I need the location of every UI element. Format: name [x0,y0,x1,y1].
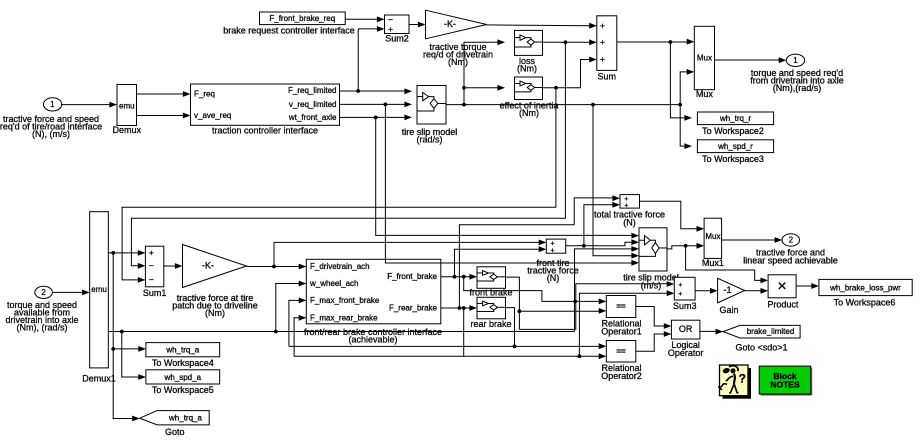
svg-text:v_req_limited: v_req_limited [289,100,337,109]
wire F_max_front_brake input [289,300,300,346]
junction v_req_limited [384,103,388,107]
wire RelOp2 to OR [636,334,665,351]
inport 1 : tractive force and speed req'd [43,98,61,111]
wire rad/s down to tire slip model in4 [593,105,633,256]
svg-text:wh_trq_r: wh_trq_r [719,114,751,123]
wire F_front_brake_req to Sum2 [345,18,378,20]
svg-text:To Workspace6: To Workspace6 [834,298,896,308]
sum: total tractive force (N) [620,195,640,209]
Relational Operator1 [606,296,636,318]
Goto brake_limited [723,325,800,338]
svg-text:Gain: Gain [719,305,738,315]
svg-text:Demux: Demux [113,125,142,135]
junction Sum output [669,40,673,44]
subsystem: front/rear brake controller interface (achievable) [306,259,441,324]
wire Product to wh_brake_loss_pwr [796,285,812,287]
junction speed to wh_spd_a [120,330,124,334]
sum Sum2 [385,15,410,34]
junction rad/s line to Mux/wh_spd_r [678,103,682,107]
wire Mux to outport 1 [715,59,780,61]
svg-text:(rad/s): (rad/s) [416,135,442,145]
svg-text:Sum: Sum [598,71,617,81]
wire F_rear_brake up to total tractive force in1 [459,198,613,308]
svg-text:Mux: Mux [705,232,720,241]
svg-text:(Nm),(rad/s): (Nm),(rad/s) [773,83,822,93]
wire gain2 out to F_drivetrain_ach [247,266,300,268]
svg-text:Operator: Operator [668,348,704,358]
svg-text:traction controller interface: traction controller interface [212,125,318,135]
junction rad/s line to loss [462,103,466,107]
svg-text:2: 2 [41,288,46,297]
junction speed to w_wheel_ach [274,330,278,334]
wire Mux1 to outport 2 [722,239,776,241]
wire F_req_limited to tire slip model [340,90,406,92]
wire F_rear_brake down to line L2 [463,308,465,356]
constant block F_front_brake_req [260,12,346,25]
svg-text:(Nm): (Nm) [517,64,537,74]
gain -K- : tractive torque req/d of drivetrain [426,10,487,39]
svg-text:(Nm), (rad/s): (Nm), (rad/s) [17,323,68,333]
wire Demux out2 to v_ave_req [137,115,185,117]
svg-text:==: == [616,302,626,311]
svg-text:(Nm): (Nm) [519,108,539,118]
svg-text:To Workspace3: To Workspace3 [702,154,764,164]
junction driveline force [272,265,276,269]
wire F_rear_brake output to rear brake block [441,307,471,309]
subsystem: tire slip model (m/s) [639,228,667,271]
wire RelOp1 to OR [636,307,659,327]
subsystem: tire slip model (rad/s) [417,86,446,125]
svg-text:+: + [624,202,628,209]
svg-text:(N): (N) [623,217,636,227]
svg-text:(m/s): (m/s) [641,280,662,290]
svg-text:front brake: front brake [469,288,512,298]
wire inport1 to Demux [61,104,111,106]
wire front brake output down [506,277,520,329]
wire Demux1 out2 (speed) long line [108,331,574,333]
svg-text:To Workspace2: To Workspace2 [702,126,764,136]
svg-text:1: 1 [50,100,55,109]
wire Sum3 to gain -1 [695,290,711,292]
wire F_front_brake output to front brake block [441,276,471,278]
svg-text:emu: emu [91,285,107,294]
wire F_front_brake up to front tire sum in2 [455,249,540,277]
wire front tire sum output [566,242,633,246]
wire L2 up to Sum3 in2 [579,293,668,356]
svg-text:Sum1: Sum1 [143,288,167,298]
junction on RelOp1 in1 line [573,300,577,304]
svg-text:wh_trq_a: wh_trq_a [165,346,199,355]
svg-text:−: − [149,275,154,285]
svg-text:wh_trq_a: wh_trq_a [168,413,202,422]
junction front brake out to RelOp1 in2 [518,309,522,313]
svg-text:Operator2: Operator2 [601,371,642,381]
svg-text:To Workspace5: To Workspace5 [152,385,214,395]
To Workspace5 block wh_spd_a [146,370,220,384]
wire v_req_limited down to tire slip model in5 [385,104,632,263]
svg-text:wt_front_axle: wt_front_axle [288,113,337,122]
junction on F_req_limited wire [356,89,360,93]
svg-text:+: + [678,291,682,298]
wire inport2 to Demux1 [52,291,83,293]
svg-text:Goto <sdo>1: Goto <sdo>1 [735,342,787,352]
wire from F_req_limited up to Sum2 plus input [357,29,359,91]
svg-text:1: 1 [793,56,798,65]
junction wt_front_axle [374,116,378,120]
junction L2 up to Sum3 in2 [578,354,582,358]
svg-text:w_wheel_ach: w_wheel_ach [309,279,358,288]
svg-text:brake_limited: brake_limited [747,327,795,336]
wire F_front_brake down to Relational Operator1 in1 [464,277,600,302]
wire F_max_rear_brake input [294,318,300,356]
svg-text:(N): (N) [547,273,560,283]
svg-text:?: ? [739,371,746,385]
wire loss output to Sum in2 [543,41,591,43]
junction to wh_trq_a [111,347,115,351]
svg-text:F_max_rear_brake: F_max_rear_brake [310,313,378,322]
wire rad/s line up to Mux in2 [680,72,688,105]
svg-text:Goto: Goto [165,427,185,437]
Demux [117,85,137,126]
wire wt_front_axle to tire slip model [340,116,406,118]
Goto block wh_trq_a [140,411,209,425]
svg-text:×: × [777,278,786,295]
svg-text:Mux: Mux [696,89,714,99]
svg-text:+: + [600,37,605,47]
wire Demux out1 to F_req [137,93,185,95]
subsystem: traction controller interface [191,84,340,125]
wire rear brake output down to L1 [506,308,515,347]
To Workspace4 block wh_trq_a [146,343,220,357]
wire down to wh_trq_r [670,42,685,118]
sum Sum3 [674,277,695,300]
svg-text:+: + [551,247,555,254]
svg-text:+: + [600,20,605,30]
To Workspace3 block wh_spd_r [697,140,773,153]
gain -1 [718,278,745,303]
wire rad/s line down to wh_spd_r [680,105,685,147]
svg-text:wh_brake_loss_pwr: wh_brake_loss_pwr [829,283,901,292]
svg-text:F_req: F_req [194,90,215,99]
subsystem: loss (Nm) [515,30,543,55]
svg-text:(N), (m/s): (N), (m/s) [32,129,70,139]
svg-text:Mux1: Mux1 [702,258,724,268]
svg-text:-K-: -K- [202,261,214,271]
svg-text:+: + [600,54,605,64]
svg-text:-1: -1 [723,285,731,295]
wire tire slip m/s output to Mux1 in2 [667,246,698,249]
svg-text:NOTES: NOTES [770,380,800,390]
wire Sum output to Mux in1 [617,41,688,43]
svg-text:F_max_front_brake: F_max_front_brake [310,296,380,305]
junction torque avail [111,251,115,255]
svg-text:F_req_limited: F_req_limited [288,86,336,95]
svg-text:(achievable): (achievable) [348,335,397,345]
line L1 F_max_front_brake to Relational Operator2 in1 [289,345,600,347]
sum Sum1 [145,246,163,287]
To Workspace6 block wh_brake_loss_pwr [819,279,912,295]
wire front brake out to Sum3 in1 [519,284,668,330]
feedback line A (inertia) to Sum1 in3 [122,88,556,280]
outport 1 : torque and speed req'd [786,54,804,66]
subsystem: effect of inertia (Nm) [515,77,543,100]
svg-text:+: + [678,282,682,289]
svg-text:Sum2: Sum2 [385,34,409,44]
wire branch to effect of inertia input [464,87,499,89]
feedback line B (loss) to Sum1 in2 [131,42,565,265]
Mux [694,26,714,89]
wire speed up to w_wheel_ach [276,284,300,332]
wire Sum1 to gain [164,265,176,267]
svg-text:Product: Product [767,299,799,309]
yellow help figure block [723,368,752,399]
svg-text:brake request controller inter: brake request controller interface [223,26,355,36]
junction F_rear_brake down [462,306,466,310]
svg-text:OR: OR [679,324,693,334]
sum: front tire tractive force (N) [546,239,565,253]
speed line up to tire slip model in3 [575,249,633,332]
To Workspace2 block wh_trq_r [697,112,773,125]
svg-text:-K-: -K- [444,19,456,29]
wire Sum2 to gain [409,24,419,26]
svg-text:Sum3: Sum3 [673,301,697,311]
svg-text:wh_spd_r: wh_spd_r [717,142,753,151]
svg-text:F_drivetrain_ach: F_drivetrain_ach [310,262,370,271]
green Block NOTES [761,368,813,396]
svg-text:F_rear_brake: F_rear_brake [389,304,438,313]
Relational Operator2 [606,341,636,363]
junction rad/s line down to tire slip model m/s [591,103,595,107]
wire tire slip model output (rad/s line) [446,104,680,106]
svg-text:−: − [149,261,154,271]
svg-text:rear brake: rear brake [470,319,511,329]
wire torque branch down to wh_trq_a and Goto [113,253,133,419]
svg-text:wh_spd_a: wh_spd_a [164,373,202,382]
junction inertia output feedback [554,86,558,90]
svg-text:Mux: Mux [697,54,712,63]
svg-text:F_front_brake: F_front_brake [387,272,437,281]
wire speed achievable down to Product in1 [686,246,762,281]
Demux1 [90,212,109,368]
svg-text:F_front_brake_req: F_front_brake_req [269,14,335,23]
subsystem: rear brake [477,297,506,319]
svg-text:−: − [388,14,393,24]
junction F_front_brake down [462,275,466,279]
wire front tire force up to total in2 [584,205,614,246]
wire wt_front_axle down to tire slip model in1 [376,117,633,235]
svg-text:==: == [616,347,626,356]
wire effect of inertia output to Sum in3 [543,60,591,88]
inport 2 : torque and speed available [35,286,53,298]
line L2 F_max_rear_brake to Relational Operator2 in2 [294,355,600,357]
junction speed achievable [684,244,688,248]
Product [768,275,796,298]
subsystem: front brake [477,267,506,289]
wire driveline force up to front tire sum in1 [274,242,540,266]
wire gain -1 to Product in2 [745,290,762,292]
junction to effect of inertia [462,86,466,90]
outport 2 : tractive force and linear speed achievable [782,234,800,246]
svg-text:2: 2 [789,236,794,245]
junction front tire force up [582,244,586,248]
junction loss output feedback [564,40,568,44]
svg-text:+: + [388,24,393,34]
svg-text:Operator1: Operator1 [601,326,642,336]
svg-text:linear speed achievable: linear speed achievable [743,255,838,265]
Mux1 [704,218,722,258]
gain -K- : tractive force at tire patch due to driveline [183,245,247,288]
junction F_front_brake up [453,275,457,279]
junction rear brake out on L1 [513,345,517,349]
wire gain to Sum in1 [487,24,591,27]
Logical Operator OR [671,320,700,339]
svg-text:+: + [149,248,154,258]
svg-text:v_ave_req: v_ave_req [194,111,231,120]
wire up to loss input [464,42,499,104]
wire total tractive force output to Mux1 in1 [640,201,698,229]
wire OR to Goto brake_limited [700,330,717,332]
svg-text:(Nm): (Nm) [448,57,468,67]
svg-text:To Workspace4: To Workspace4 [152,358,214,368]
svg-text:(Nm): (Nm) [205,308,225,318]
sum Sum [597,16,617,71]
wire v_req_limited to tire slip model [340,103,406,105]
wire Demux1 out1 (torque) to Sum1 in1 [108,252,139,254]
junction F_rear_brake up [458,306,462,310]
svg-text:emu: emu [119,102,135,111]
svg-text:Demux1: Demux1 [82,373,116,383]
